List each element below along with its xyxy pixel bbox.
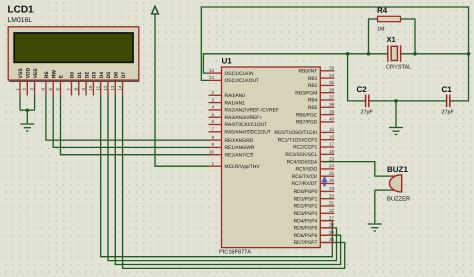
U1 pin 3 RA1/AN1 bbox=[209, 102, 222, 104]
U1 pin 15 RC0/T1OSO/T1CKI bbox=[320, 131, 334, 133]
U1 pin 1 MCLR/Vpp/THV bbox=[209, 165, 222, 167]
U1 pin 14 OSC2/CLKOUT bbox=[209, 79, 222, 81]
ground (buzzer) bbox=[368, 224, 382, 231]
U1 pin 39 RB6/PGC bbox=[320, 114, 334, 116]
wire LCD D6 to U1 RD6 bbox=[115, 96, 340, 265]
svg-text:RD6/PSP6: RD6/PSP6 bbox=[294, 233, 318, 239]
svg-text:LM016L: LM016L bbox=[8, 17, 33, 24]
svg-text:VDD: VDD bbox=[26, 67, 32, 78]
svg-text:RA1/AN1: RA1/AN1 bbox=[225, 100, 246, 106]
U1 pin 37 RB4 bbox=[320, 99, 334, 101]
svg-text:RC1/T1OSI/CCP2: RC1/T1OSI/CCP2 bbox=[278, 137, 318, 143]
junction bbox=[346, 52, 350, 56]
U1 pin 18 RC3/SCK/SCL bbox=[320, 153, 334, 155]
svg-text:BUZ1: BUZ1 bbox=[387, 165, 408, 174]
wire LCD RS to U1 RE0 bbox=[46, 96, 209, 141]
wire to capacitor ground bbox=[395, 101, 397, 127]
svg-text:3: 3 bbox=[211, 97, 214, 102]
svg-text:RB6/PGC: RB6/PGC bbox=[296, 112, 318, 118]
svg-text:RD2/PSP2: RD2/PSP2 bbox=[294, 204, 318, 210]
svg-text:RE0/AN5/RD: RE0/AN5/RD bbox=[225, 138, 254, 144]
svg-text:7: 7 bbox=[211, 127, 214, 132]
svg-text:RS: RS bbox=[44, 71, 50, 79]
U1 pin 26 RC7/RX/DT bbox=[320, 183, 334, 185]
svg-text:38: 38 bbox=[329, 102, 335, 107]
svg-text:37: 37 bbox=[329, 95, 335, 100]
U1 pin 38 RB5 bbox=[320, 106, 334, 108]
U1 pin 9 RE1/AN6/WR bbox=[209, 146, 222, 148]
svg-text:OSC2/CLKOUT: OSC2/CLKOUT bbox=[225, 78, 260, 84]
U1 pin 10 RE2/AN7/CS bbox=[209, 154, 222, 156]
U1 pin 35 RB2 bbox=[320, 84, 334, 86]
wire VSS-VEE join bbox=[20, 109, 35, 111]
svg-text:RB1: RB1 bbox=[308, 76, 318, 82]
wire buzzer - to ground bbox=[374, 190, 376, 223]
U1 pin 7 RA5/AN4/SS/C2OUT bbox=[209, 131, 222, 133]
junction bbox=[467, 52, 471, 56]
svg-text:RA3/AN3/VREF+: RA3/AN3/VREF+ bbox=[225, 115, 263, 121]
svg-text:13: 13 bbox=[209, 68, 215, 73]
wire LCD VSS to ground bar bbox=[19, 96, 21, 111]
svg-text:33: 33 bbox=[329, 66, 335, 71]
svg-text:10: 10 bbox=[88, 85, 93, 91]
svg-text:LCD1: LCD1 bbox=[8, 5, 35, 16]
U1 pin 19 RD0/PSP0 bbox=[320, 190, 334, 192]
svg-text:RD1/PSP1: RD1/PSP1 bbox=[294, 196, 318, 202]
svg-text:6: 6 bbox=[211, 119, 214, 124]
svg-text:X1: X1 bbox=[387, 35, 396, 44]
svg-text:RC6/TX/CK: RC6/TX/CK bbox=[292, 174, 318, 180]
svg-text:RB0/INT: RB0/INT bbox=[299, 69, 318, 75]
wire LCD D7 to U1 RD7 bbox=[123, 96, 345, 269]
svg-text:RC0/T1OSO/T1CKI: RC0/T1OSO/T1CKI bbox=[274, 130, 317, 136]
U1 pin 23 RC4/SDI/SDA bbox=[320, 161, 334, 163]
wire buzzer - pin bbox=[375, 189, 390, 191]
svg-text:26: 26 bbox=[329, 178, 335, 183]
svg-text:27pF: 27pF bbox=[442, 110, 455, 116]
svg-text:21: 21 bbox=[329, 201, 335, 206]
U1 pin 27 RD4/PSP4 bbox=[320, 220, 334, 222]
svg-text:RA2/AN2/VREF-/CVREF: RA2/AN2/VREF-/CVREF bbox=[225, 108, 279, 114]
svg-text:D1: D1 bbox=[77, 72, 83, 79]
svg-text:D6: D6 bbox=[114, 72, 120, 79]
svg-text:C1: C1 bbox=[442, 85, 453, 94]
svg-text:U1: U1 bbox=[222, 57, 233, 66]
svg-text:35: 35 bbox=[329, 80, 335, 85]
svg-text:RA4/T0CKI/C1OUT: RA4/T0CKI/C1OUT bbox=[225, 122, 268, 128]
svg-text:4: 4 bbox=[211, 105, 214, 110]
svg-text:RA5/AN4/SS/C2OUT: RA5/AN4/SS/C2OUT bbox=[225, 130, 271, 136]
wire U1 OSC2 top loop to crystal right node / C1 bbox=[201, 7, 468, 101]
U1 pin 30 RD7/PSP7 bbox=[320, 242, 334, 244]
wire LCD E to U1 RE2 bbox=[61, 96, 209, 155]
U1 pin 13 OSC1/CLKIN bbox=[209, 72, 222, 74]
wire R4 left to crystal left node bbox=[369, 19, 378, 54]
svg-text:1: 1 bbox=[211, 161, 214, 166]
ground (LCD) bbox=[20, 124, 34, 131]
svg-text:PIC16F877A: PIC16F877A bbox=[219, 250, 251, 256]
U1 pin 5 RA3/AN3/VREF+ bbox=[209, 116, 222, 118]
junction bbox=[394, 99, 398, 103]
svg-text:14: 14 bbox=[117, 85, 122, 91]
svg-text:RB7/PGD: RB7/PGD bbox=[296, 120, 318, 126]
power symbol (+5V arrow) bbox=[152, 6, 159, 14]
svg-text:D7: D7 bbox=[121, 72, 127, 79]
capacitor C1 bbox=[447, 95, 450, 108]
svg-text:VSS: VSS bbox=[18, 68, 24, 79]
svg-text:RD4/PSP4: RD4/PSP4 bbox=[294, 218, 318, 224]
svg-text:VEE: VEE bbox=[33, 68, 39, 79]
svg-text:9: 9 bbox=[211, 142, 214, 147]
resistor R4 bbox=[378, 16, 401, 21]
U1 pin 29 RD6/PSP6 bbox=[320, 234, 334, 236]
svg-text:RD3/PSP3: RD3/PSP3 bbox=[294, 211, 318, 217]
svg-text:RC2/CCP1: RC2/CCP1 bbox=[293, 145, 317, 151]
U1 pin 28 RD5/PSP5 bbox=[320, 227, 334, 229]
U1 pin 20 RD1/PSP1 bbox=[320, 198, 334, 200]
junction bbox=[367, 52, 371, 56]
svg-text:RB5: RB5 bbox=[308, 105, 318, 111]
wire C2 to C1 (ground node) bbox=[369, 100, 446, 102]
svg-text:MCLR/Vpp/THV: MCLR/Vpp/THV bbox=[225, 164, 261, 170]
wire LCD D5 to U1 RD5 bbox=[108, 96, 337, 261]
U1 pin 36 RB3/PGM bbox=[320, 92, 334, 94]
svg-text:13: 13 bbox=[110, 85, 115, 91]
wire R4 right to crystal right node bbox=[401, 19, 416, 54]
junction bbox=[26, 108, 30, 112]
svg-text:2: 2 bbox=[211, 90, 214, 95]
wire LCD VEE to ground bar bbox=[34, 96, 36, 111]
svg-text:20: 20 bbox=[329, 193, 335, 198]
blue marker near pin 26 bbox=[321, 176, 327, 182]
svg-text:27pF: 27pF bbox=[361, 110, 374, 116]
svg-text:39: 39 bbox=[329, 109, 335, 114]
svg-text:17: 17 bbox=[329, 142, 335, 147]
svg-text:22: 22 bbox=[329, 208, 335, 213]
svg-text:RE2/AN7/CS: RE2/AN7/CS bbox=[225, 152, 254, 158]
U1 pin 40 RB7/PGD bbox=[320, 121, 334, 123]
U1 pin 34 RB1 bbox=[320, 77, 334, 79]
crystal X1 bbox=[388, 45, 401, 62]
wire LCD RW to U1 RE1 bbox=[53, 96, 208, 148]
svg-text:11: 11 bbox=[96, 85, 101, 90]
svg-text:RC4/SDI/SDA: RC4/SDI/SDA bbox=[287, 159, 318, 165]
svg-text:RC5/SDO: RC5/SDO bbox=[296, 167, 318, 173]
svg-text:RE1/AN6/WR: RE1/AN6/WR bbox=[225, 145, 255, 151]
LCD display LCD1 body bbox=[8, 27, 139, 80]
svg-text:RD0/PSP0: RD0/PSP0 bbox=[294, 189, 318, 195]
svg-text:23: 23 bbox=[329, 156, 335, 161]
svg-text:RD5/PSP5: RD5/PSP5 bbox=[294, 226, 318, 232]
U1 pin 2 RA0/AN0 bbox=[209, 94, 222, 96]
wire crystal left node to C2 bbox=[348, 54, 366, 101]
svg-text:D0: D0 bbox=[70, 72, 76, 79]
svg-text:14: 14 bbox=[209, 75, 215, 80]
svg-text:19: 19 bbox=[329, 186, 335, 191]
svg-text:RC3/SCK/SCL: RC3/SCK/SCL bbox=[285, 152, 317, 158]
U1 pin 4 RA2/AN2/VREF-/CVREF bbox=[209, 109, 222, 111]
svg-text:18: 18 bbox=[329, 149, 335, 154]
svg-text:10: 10 bbox=[209, 149, 215, 154]
LCD screen bbox=[14, 33, 133, 62]
svg-text:16: 16 bbox=[329, 134, 335, 139]
capacitor C2 bbox=[366, 95, 369, 108]
svg-text:25: 25 bbox=[329, 171, 335, 176]
wire LCD D4 to U1 RD4 bbox=[101, 96, 333, 257]
svg-text:D5: D5 bbox=[106, 72, 112, 79]
svg-text:RB4: RB4 bbox=[308, 98, 318, 104]
svg-text:8: 8 bbox=[211, 135, 214, 140]
U1 pin 6 RA4/T0CKI/C1OUT bbox=[209, 124, 222, 126]
U1 pin 21 RD2/PSP2 bbox=[320, 205, 334, 207]
svg-text:CRYSTAL: CRYSTAL bbox=[386, 65, 411, 71]
wire to LCD ground bbox=[26, 110, 28, 123]
svg-text:R4: R4 bbox=[377, 6, 388, 15]
svg-text:D3: D3 bbox=[92, 72, 98, 79]
svg-text:29: 29 bbox=[329, 230, 335, 235]
svg-text:RC7/RX/DT: RC7/RX/DT bbox=[291, 181, 317, 187]
svg-text:12: 12 bbox=[103, 85, 108, 91]
ground (capacitors) bbox=[389, 128, 403, 135]
svg-text:1M: 1M bbox=[377, 27, 385, 33]
U1 pin 24 RC5/SDO bbox=[320, 168, 334, 170]
U1 pin 22 RD3/PSP3 bbox=[320, 212, 334, 214]
buzzer BUZ1 bbox=[390, 175, 396, 177]
svg-text:30: 30 bbox=[329, 237, 335, 242]
svg-text:5: 5 bbox=[211, 112, 214, 117]
microcontroller U1 PIC16F877A body bbox=[222, 67, 321, 248]
junction bbox=[413, 52, 417, 56]
U1 pin 25 RC6/TX/CK bbox=[320, 175, 334, 177]
svg-text:36: 36 bbox=[329, 87, 335, 92]
U1 pin 8 RE0/AN5/RD bbox=[209, 139, 222, 141]
wire U1 OSC1 to crystal left node bbox=[203, 54, 387, 73]
svg-text:OSC1/CLKIN: OSC1/CLKIN bbox=[225, 71, 255, 77]
svg-text:40: 40 bbox=[329, 117, 335, 122]
U1 pin 33 RB0/INT bbox=[320, 70, 334, 72]
U1 pin 17 RC2/CCP1 bbox=[320, 146, 334, 148]
svg-text:BUZZER: BUZZER bbox=[387, 197, 410, 203]
svg-text:24: 24 bbox=[329, 164, 335, 169]
wire power to U1 MCLR bbox=[155, 14, 209, 166]
svg-text:RD7/PSP7: RD7/PSP7 bbox=[294, 240, 318, 246]
svg-text:15: 15 bbox=[329, 127, 335, 132]
wire U1 RC4 to buzzer + bbox=[322, 162, 390, 177]
U1 pin 16 RC1/T1OSI/CCP2 bbox=[320, 139, 334, 141]
svg-text:27: 27 bbox=[329, 215, 335, 220]
svg-text:28: 28 bbox=[329, 223, 335, 228]
svg-text:D2: D2 bbox=[84, 72, 90, 79]
LCD body bottom shadow bbox=[9, 80, 139, 82]
svg-text:RW: RW bbox=[51, 70, 57, 79]
svg-text:RB2: RB2 bbox=[308, 83, 318, 89]
svg-text:RA0/AN0: RA0/AN0 bbox=[225, 93, 246, 99]
svg-text:RB3/PGM: RB3/PGM bbox=[295, 90, 317, 96]
wire crystal right to loop bbox=[401, 53, 469, 55]
svg-text:C2: C2 bbox=[357, 85, 368, 94]
svg-text:D4: D4 bbox=[99, 72, 105, 79]
svg-text:34: 34 bbox=[329, 73, 335, 78]
